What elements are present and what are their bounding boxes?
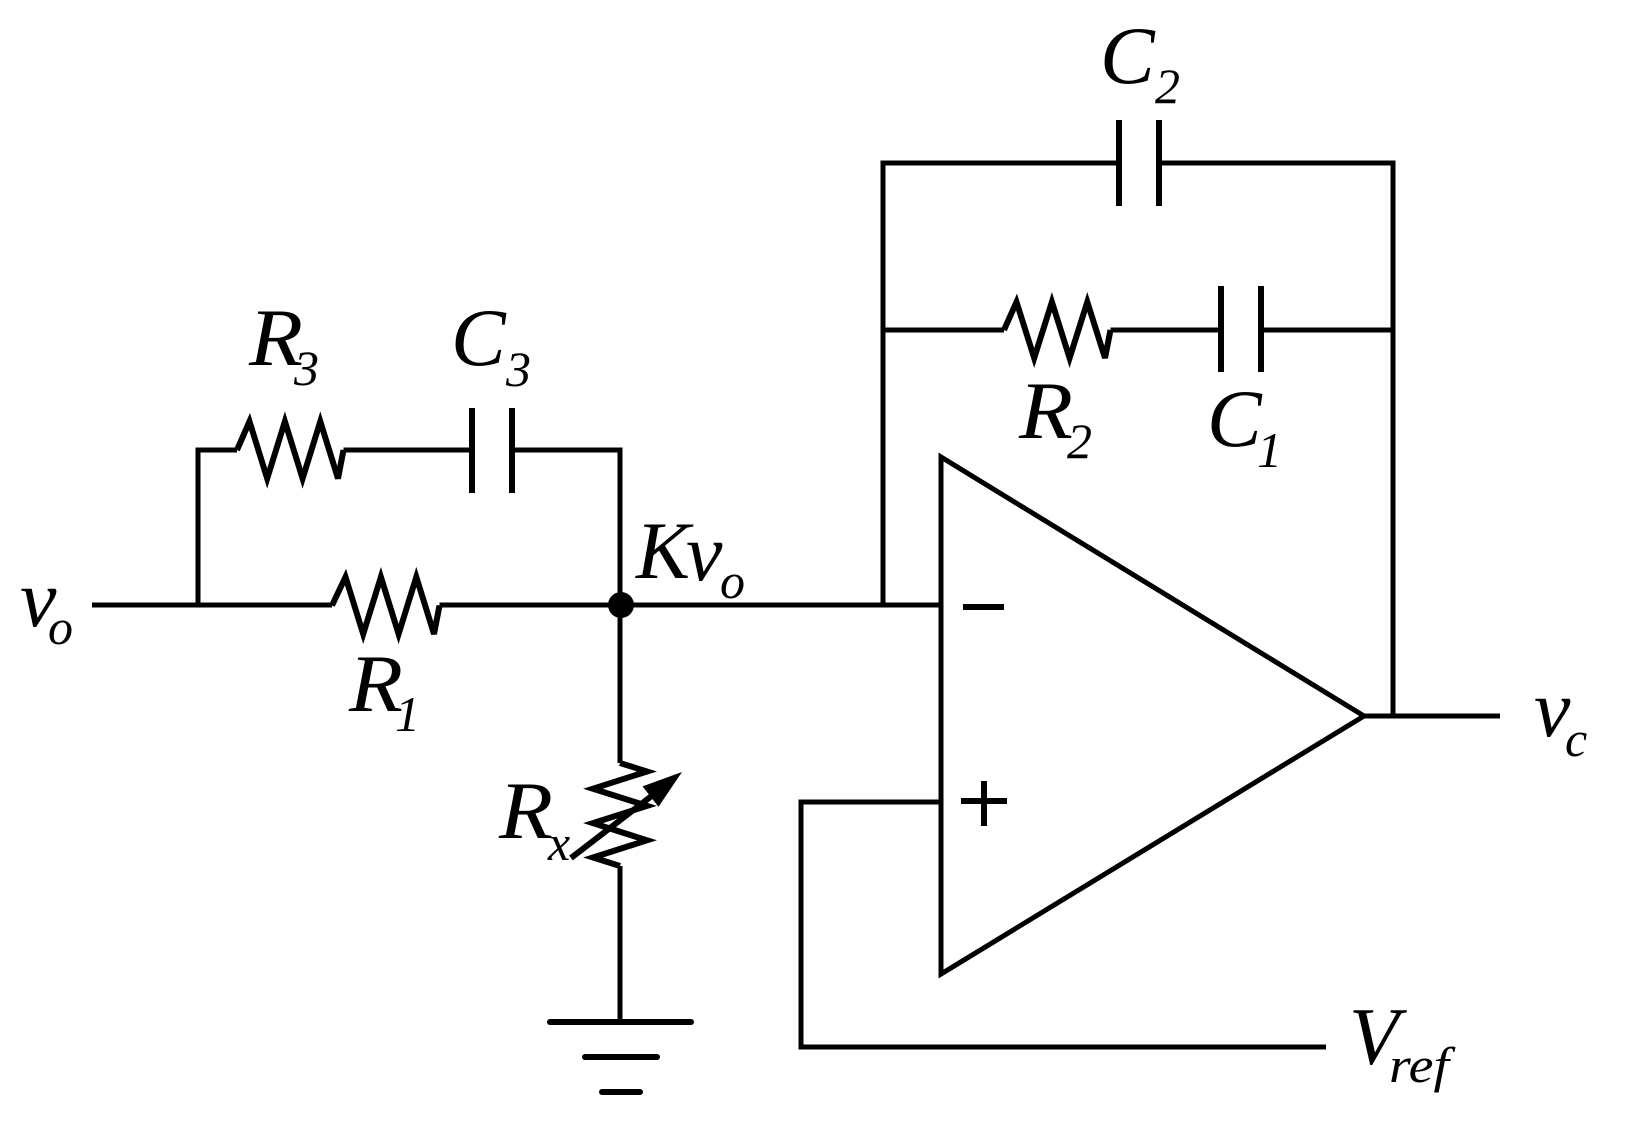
svg-text:2: 2 [1067,413,1092,469]
resistor Rx (variable) [593,763,647,866]
svg-text:1: 1 [1257,422,1282,478]
svg-text:C: C [451,292,507,383]
ground bar 3 [602,1089,640,1095]
wire Vref left riser [799,800,804,1048]
arrowhead of Rx arrow [643,772,683,807]
wire left riser of R3C3 branch [196,448,201,606]
wire feedback left riser [881,161,886,606]
capacitor C3 [469,408,475,493]
svg-text:3: 3 [293,340,319,396]
svg-text:v: v [686,507,723,598]
op-amp U1 triangle [941,457,1364,974]
wire Rx to ground [618,866,623,1022]
wire R2C1 branch left [883,328,1004,333]
wire node down to Rx [618,605,623,763]
resistor R1 [332,577,440,634]
resistor R3 [237,422,344,479]
wire top branch left segment [196,448,238,453]
svg-text:c: c [1565,711,1587,767]
wire vo input lead [92,603,332,608]
wire node Kvo to op-amp inverting input [440,603,942,608]
op-amp minus sign [963,604,1004,610]
wire between R3 and C3 [344,448,473,453]
arrow of variable resistor Rx [571,788,662,858]
svg-text:C: C [1100,10,1156,101]
resistor R2 [1004,302,1111,358]
svg-text:1: 1 [395,686,420,742]
svg-text:ref: ref [1389,1037,1456,1093]
svg-text:R: R [498,765,553,856]
wire C2 branch left [881,161,1120,166]
ground bar 2 [585,1054,657,1060]
wire feedback right riser [1391,161,1396,717]
svg-text:3: 3 [505,341,531,397]
wire C1 to right riser [1261,328,1393,333]
wire C2 branch right [1159,161,1396,166]
wire C3 to right riser [512,448,623,453]
svg-text:R: R [1018,365,1073,456]
ground bar 1 [550,1019,691,1025]
op-amp plus sign [961,798,1007,804]
node Kvo junction dot [608,592,634,618]
wire Vref horizontal [799,1045,1327,1050]
svg-text:2: 2 [1155,58,1180,114]
capacitor C1 [1218,286,1224,372]
svg-text:o: o [48,599,73,655]
svg-text:C: C [1207,373,1263,464]
wire output vc [1364,714,1500,719]
svg-text:x: x [547,815,570,871]
svg-text:o: o [720,553,745,609]
capacitor C2 [1116,120,1122,206]
wire right riser down to node [618,448,623,606]
wire between R2 and C1 [1111,328,1222,333]
wire noninverting input lead [801,800,941,805]
